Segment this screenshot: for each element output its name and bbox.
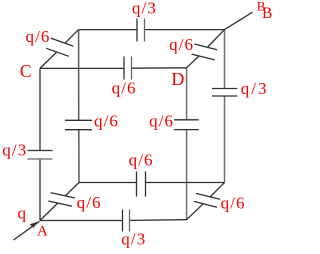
- svg-text:q/6: q/6: [112, 79, 137, 98]
- capacitor q/6 on edge D-E: [174, 119, 199, 121]
- wire back left edge F-G: [78, 30, 80, 121]
- capacitor q/6 on edge F-G: [65, 119, 92, 121]
- svg-text:q/6: q/6: [149, 112, 174, 131]
- svg-text:q/6: q/6: [129, 150, 154, 169]
- svg-text:C: C: [20, 61, 32, 81]
- wire back right edge B-H: [224, 30, 226, 89]
- capacitor q/3 on edge F-B: [136, 19, 138, 42]
- svg-text:q/6: q/6: [169, 35, 194, 54]
- capacitor q/6 on edge E-H: [196, 193, 220, 199]
- svg-text:q/6: q/6: [221, 193, 246, 212]
- wire diagonal edge D-B: [187, 56, 199, 68]
- capacitor q/6 on edge G-H: [136, 172, 138, 197]
- wire diagonal edge C-F: [40, 52, 57, 68]
- svg-text:q/3: q/3: [132, 0, 157, 18]
- capacitor q/3 on edge A-E: [122, 210, 124, 232]
- svg-text:A: A: [37, 224, 48, 240]
- svg-text:q: q: [18, 203, 27, 222]
- svg-text:q/3: q/3: [2, 141, 27, 160]
- wire front top edge C-D: [40, 67, 124, 69]
- wire front right edge D-E: [186, 68, 188, 120]
- svg-text:D: D: [171, 69, 184, 89]
- capacitor q/3 on edge B-H: [212, 88, 237, 90]
- svg-text:B: B: [262, 5, 272, 22]
- wire back top edge F-B: [79, 29, 137, 31]
- wire front left edge C-A: [39, 68, 41, 150]
- svg-text:q/6: q/6: [26, 27, 51, 46]
- capacitor q/6 on edge C-D: [123, 57, 125, 80]
- wire back bottom edge G-H: [79, 182, 137, 184]
- wire front bottom edge A-E: [40, 220, 123, 222]
- capacitor q/6 on edge C-F: [51, 38, 73, 46]
- capacitor q/6 on edge A-G: [51, 193, 75, 198]
- svg-text:q/6: q/6: [77, 193, 102, 212]
- svg-text:q/3: q/3: [241, 79, 269, 98]
- wire diagonal edge E-H: [187, 204, 204, 220]
- wire current arrow lead at node A: [14, 221, 40, 240]
- svg-text:q/3: q/3: [121, 230, 146, 249]
- wire terminal at node B: [225, 12, 253, 29]
- current arrowhead at node A: [30, 222, 38, 228]
- wire diagonal edge A-G: [40, 203, 58, 220]
- svg-text:q/6: q/6: [94, 112, 119, 131]
- capacitor q/6 on edge D-B: [195, 44, 218, 50]
- capacitor q/3 on edge C-A: [28, 150, 53, 152]
